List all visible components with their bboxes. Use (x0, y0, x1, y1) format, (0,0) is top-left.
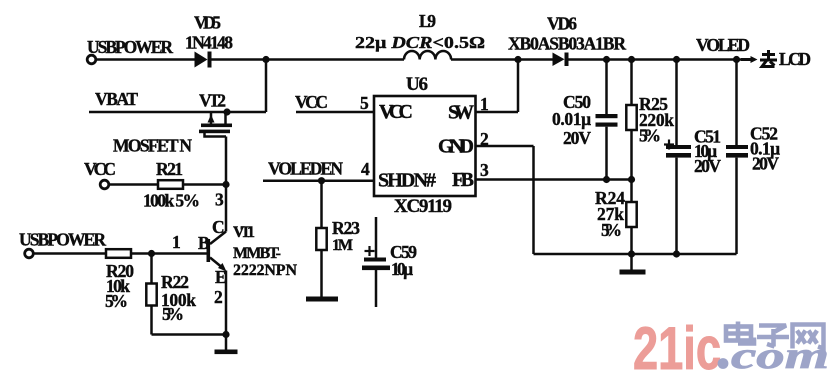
wire R22 to emitter net (152, 306, 227, 335)
logo 电 (726, 322, 754, 344)
svg-text:10μ: 10μ (391, 259, 413, 279)
svg-text:GND: GND (438, 136, 474, 158)
svg-text:VT1: VT1 (233, 224, 255, 241)
svg-text:SW: SW (448, 102, 474, 124)
wire VCC pin5 (296, 111, 374, 114)
wire top rail left (96, 58, 196, 61)
svg-text:21ic: 21ic (633, 315, 721, 370)
svg-text:E: E (215, 267, 227, 287)
node R25-rail (628, 56, 635, 63)
node top-VD5 (262, 56, 269, 63)
svg-text:20V: 20V (563, 128, 591, 148)
ground (VT1) (215, 350, 238, 355)
wire VOLEDEN node to R23 (320, 181, 323, 228)
resistor R25 (626, 60, 636, 180)
svg-text:5: 5 (360, 93, 369, 113)
node R25-FB (628, 176, 635, 183)
ground (R24) (620, 254, 646, 275)
node VOLEDEN (318, 177, 325, 184)
svg-text:20V: 20V (694, 156, 721, 176)
svg-text:XB0ASB03A1BR: XB0ASB03A1BR (508, 34, 626, 54)
svg-text:R23: R23 (332, 218, 360, 238)
svg-text:VCC: VCC (379, 101, 413, 123)
capacitor C50 (596, 60, 618, 180)
wire VCC to R21 (109, 183, 158, 186)
resistor R20 (106, 249, 131, 258)
transistor VT1 (207, 232, 227, 272)
svg-text:100k 5%: 100k 5% (143, 191, 200, 211)
logo 子 (757, 326, 789, 347)
svg-text:0.01μ: 0.01μ (552, 109, 591, 129)
svg-text:MOSFET N: MOSFET N (113, 136, 192, 156)
svg-text:3: 3 (480, 160, 489, 180)
svg-text:C: C (212, 217, 225, 237)
wire R21 to node (183, 183, 226, 186)
svg-text:VOLEDEN: VOLEDEN (268, 159, 343, 179)
terminal USBPOWER (top) (87, 55, 96, 64)
wire VT2 drain to R21 node to VT1 collector (225, 137, 228, 232)
wire node1 to R22 (150, 254, 153, 284)
svg-text:R22: R22 (161, 272, 189, 292)
logo .com (718, 335, 829, 370)
node C50-rail (603, 56, 610, 63)
node SW-rail (514, 56, 521, 63)
svg-text:VCC: VCC (84, 159, 116, 179)
svg-text:USBPOWER: USBPOWER (19, 230, 106, 250)
svg-text:LCD: LCD (779, 49, 811, 69)
svg-text:R21: R21 (156, 159, 183, 179)
svg-text:1: 1 (172, 232, 181, 252)
capacitor C59 (362, 217, 390, 307)
svg-text:VOLED: VOLED (696, 35, 750, 55)
svg-text:USBPOWER: USBPOWER (87, 37, 173, 57)
node C51-gnd (673, 250, 680, 257)
wire bottom net (632, 253, 737, 256)
logo 网 (793, 325, 824, 349)
svg-text:3: 3 (215, 190, 224, 210)
resistor R23 (316, 228, 326, 250)
resistor R21 (158, 180, 183, 189)
wire top rail mid2 (451, 58, 553, 61)
svg-text:L9: L9 (419, 11, 436, 31)
svg-text:VD5: VD5 (194, 13, 221, 33)
node R21-collector (222, 181, 229, 188)
svg-text:U6: U6 (406, 74, 428, 95)
wire USBPOWER to R20 (34, 252, 107, 255)
wire top rail mid (212, 58, 405, 61)
capacitor C52 (726, 60, 748, 255)
svg-text:1M: 1M (332, 237, 353, 254)
wire VOLEDEN pin4 (263, 179, 374, 182)
diode VD5 (195, 52, 212, 68)
wire VBAT (89, 60, 266, 113)
svg-text:20V: 20V (752, 154, 779, 174)
svg-text:2222NPN: 2222NPN (233, 262, 297, 279)
svg-text:5%: 5% (105, 291, 128, 311)
terminal VCC (R21 row) (100, 180, 109, 189)
node VOLED (733, 56, 740, 63)
svg-text:4: 4 (361, 159, 370, 179)
wire GND pin2 (476, 146, 632, 254)
svg-text:1: 1 (480, 94, 489, 114)
svg-text:5%: 5% (639, 126, 661, 146)
svg-text:com: com (731, 335, 829, 370)
svg-text:B: B (198, 233, 210, 253)
node VBAT-VT2 (223, 108, 230, 115)
svg-text:1N4148: 1N4148 (185, 33, 233, 53)
svg-text:XC9119: XC9119 (394, 196, 452, 217)
diode VD6 (553, 53, 569, 67)
node C51-rail (673, 56, 680, 63)
capacitor C51 (664, 60, 691, 255)
inductor L9 (404, 51, 451, 60)
resistor R24 (626, 180, 636, 255)
node R24-gnd (628, 250, 635, 257)
wire R23 to ground (320, 250, 323, 297)
transistor VT2 MOSFET (199, 112, 232, 137)
wire FB pin3 (476, 178, 632, 181)
ground (R23) (306, 297, 338, 302)
svg-text:VCC: VCC (295, 92, 328, 112)
node C50-FB (603, 176, 610, 183)
terminal USBPOWER (bottom) (25, 249, 34, 258)
svg-text:MMBT-: MMBT- (233, 245, 281, 262)
resistor R22 (146, 284, 156, 306)
svg-text:VT2: VT2 (199, 91, 226, 111)
svg-text:2: 2 (480, 129, 489, 149)
svg-text:5%: 5% (162, 304, 184, 324)
svg-text:22μ DCR<0.5Ω: 22μ DCR<0.5Ω (355, 33, 485, 52)
wire R20 to VT1 base (131, 252, 207, 255)
wire SW pin1 (476, 60, 519, 113)
svg-text:VBAT: VBAT (95, 89, 138, 109)
wire VT1 emitter down (225, 271, 228, 351)
glyph 去 (to LCD) (760, 50, 777, 67)
arrow to LCD (741, 56, 758, 63)
svg-text:5%: 5% (601, 220, 622, 240)
op-amp U6 box (374, 96, 476, 196)
svg-text:SHDN#: SHDN# (378, 170, 436, 192)
node 1 base (148, 250, 155, 257)
svg-text:FB: FB (452, 169, 474, 191)
svg-text:VD6: VD6 (547, 14, 577, 34)
node emitter-R22 (222, 331, 229, 338)
svg-text:2: 2 (214, 287, 223, 307)
wire top rail right (569, 58, 742, 61)
